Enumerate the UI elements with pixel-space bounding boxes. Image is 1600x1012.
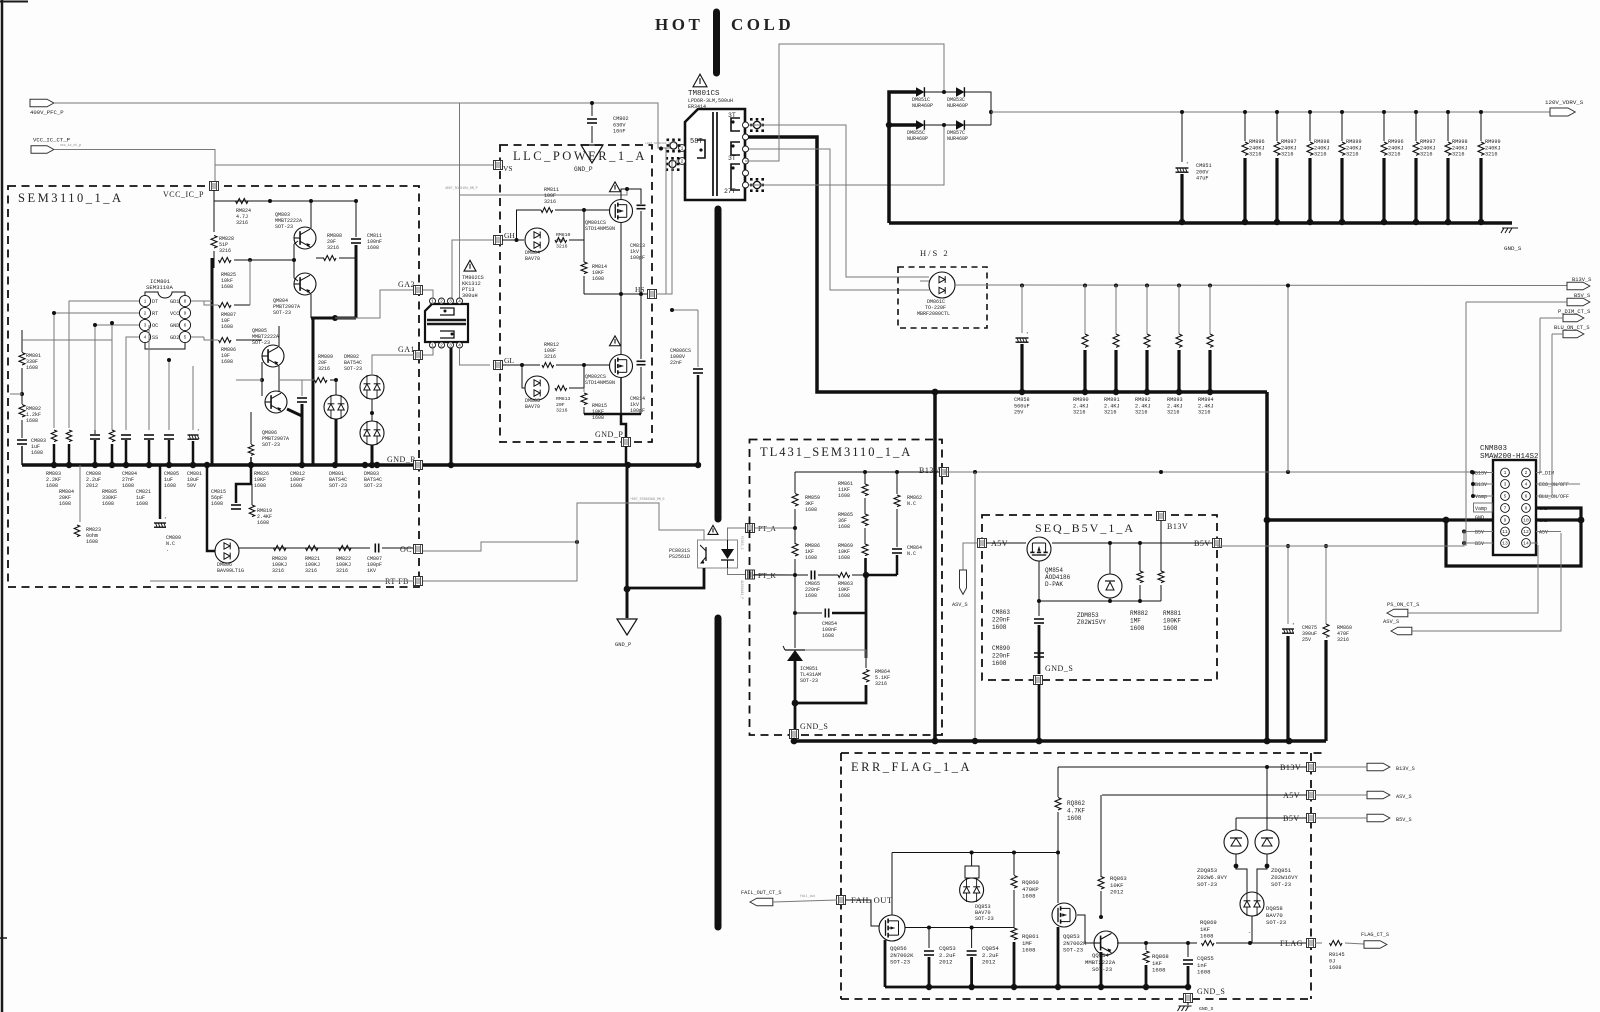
block LLC_POWER_1_A dashed box	[500, 145, 652, 442]
svg-text:10KF: 10KF	[254, 477, 266, 483]
svg-text:DM805: DM805	[525, 398, 540, 404]
svg-text:CM815: CM815	[211, 489, 226, 495]
wire thick down	[865, 575, 868, 658]
transformer TM801CS left pin 2	[679, 158, 686, 165]
resistor RM869	[864, 528, 866, 544]
svg-text:1KV: 1KV	[367, 568, 376, 574]
svg-text:3216: 3216	[544, 199, 556, 205]
svg-text:RM821: RM821	[305, 556, 320, 562]
wire stub to border	[10, 393, 22, 395]
wire QM801 drain	[621, 189, 641, 204]
svg-text:2.2KF: 2.2KF	[46, 477, 61, 483]
wire QM854 to B5V	[1052, 542, 1213, 544]
wire ZDQ851 top to B13V	[1266, 767, 1268, 830]
resistor RM825 row	[219, 258, 232, 263]
svg-text:A5V: A5V	[1539, 530, 1548, 536]
svg-text:100pF: 100pF	[367, 562, 382, 568]
wire HS to transformer	[656, 161, 678, 294]
svg-text:VCC_IC_P: VCC_IC_P	[163, 190, 204, 199]
svg-text:330F: 330F	[26, 359, 38, 365]
svg-text:RM869: RM869	[838, 543, 853, 549]
wire thick GND loop right	[1446, 508, 1581, 566]
resistor RM815	[583, 388, 585, 392]
svg-text:3: 3	[449, 343, 452, 349]
svg-text:2.4KF: 2.4KF	[257, 514, 272, 520]
resistor RM999 240KJ	[1479, 110, 1483, 114]
svg-text:56pF: 56pF	[211, 495, 223, 501]
capacitor CM815	[236, 465, 251, 503]
connector CNM803 pin 10	[1522, 516, 1531, 525]
svg-text:GND_P: GND_P	[595, 430, 623, 439]
svg-text:B13V: B13V	[1475, 471, 1487, 477]
wire ZDQ853 top to B5V	[1235, 818, 1237, 830]
border tick	[0, 937, 7, 939]
svg-text:120V_VDRV_S: 120V_VDRV_S	[1545, 99, 1584, 106]
svg-text:25V: 25V	[1302, 637, 1311, 643]
svg-text:SS: SS	[152, 335, 158, 341]
wire RM826 drop	[250, 412, 252, 444]
svg-text:1608: 1608	[1200, 933, 1213, 940]
node opto gnd junction	[624, 586, 631, 593]
svg-text:CM807: CM807	[367, 556, 382, 562]
svg-text:RM824: RM824	[236, 208, 251, 214]
resistor RQ861	[1011, 928, 1017, 940]
wire thick secondary ground bus	[889, 221, 1512, 225]
svg-text:DM855C: DM855C	[907, 130, 925, 136]
capacitor CM807	[374, 544, 376, 553]
wire DM801 drop thick	[335, 419, 338, 465]
svg-text:GD2: GD2	[170, 335, 179, 341]
svg-text:COLD: COLD	[731, 15, 794, 34]
svg-text:3216: 3216	[1485, 152, 1497, 158]
svg-text:BAT54C: BAT54C	[344, 360, 362, 366]
resistor RQ868	[1145, 943, 1147, 950]
svg-text:CM865: CM865	[805, 581, 820, 587]
connector CNM803 pin 2	[1522, 468, 1531, 477]
svg-text:GND_S: GND_S	[1197, 987, 1225, 996]
svg-text:1608: 1608	[1022, 947, 1035, 954]
wire PT_K right	[755, 574, 795, 577]
wire QQ856 source thick	[884, 940, 887, 987]
svg-text:DM853C: DM853C	[947, 97, 965, 103]
wire pin14 drop	[1530, 542, 1538, 544]
svg-text:RM860: RM860	[1337, 625, 1352, 631]
capacitor CQ854	[971, 928, 973, 949]
svg-text:RM812: RM812	[544, 342, 559, 348]
resistor RM865	[864, 498, 866, 514]
capacitor CM801 polarized	[188, 434, 199, 436]
svg-text:CM801: CM801	[187, 471, 202, 477]
svg-text:.: .	[166, 547, 169, 553]
wire P_DIM_CT_S	[1540, 317, 1563, 319]
svg-text:MBRF2080CTL: MBRF2080CTL	[917, 311, 950, 317]
svg-text:1608: 1608	[1197, 969, 1210, 976]
svg-text:10uF: 10uF	[187, 477, 199, 483]
connector CNM803 pin 11	[1501, 527, 1510, 536]
svg-text:RM999: RM999	[1485, 139, 1501, 145]
wire B13V rail inside	[795, 471, 940, 473]
diode DM853C	[956, 87, 964, 97]
svg-text:3216: 3216	[305, 568, 317, 574]
wire pin RT	[54, 313, 139, 428]
svg-text:ECO_ON/OFF: ECO_ON/OFF	[1539, 482, 1569, 488]
svg-text:RM894: RM894	[1198, 397, 1214, 403]
svg-text:DM806: DM806	[217, 562, 232, 568]
svg-text:10F: 10F	[221, 353, 230, 359]
resistor RQ862	[1057, 767, 1059, 797]
svg-text:240KJ: 240KJ	[1346, 145, 1362, 151]
capacitor CM811	[355, 201, 357, 237]
wire VS feed	[215, 164, 494, 166]
ground GND_S top right	[1502, 227, 1518, 229]
svg-text:2012: 2012	[86, 483, 98, 489]
svg-text:TM801CS: TM801CS	[688, 90, 720, 98]
svg-text:DT: DT	[152, 299, 158, 305]
svg-text:1608: 1608	[164, 483, 176, 489]
svg-text:1608: 1608	[1152, 967, 1165, 974]
wire QQ856 drain riser	[891, 853, 893, 916]
wire thick GND_P drop	[626, 465, 629, 618]
svg-text:SOT-23: SOT-23	[890, 959, 910, 966]
wire thick ERR gnd bus	[885, 986, 1188, 989]
svg-text:CM806CS: CM806CS	[670, 348, 691, 354]
diode DM803 circle	[360, 421, 384, 445]
svg-text:6: 6	[1525, 494, 1528, 500]
svg-text:1608: 1608	[257, 520, 269, 526]
svg-text:3216: 3216	[1337, 637, 1349, 643]
svg-text:3216: 3216	[272, 568, 284, 574]
svg-text:SOT-23: SOT-23	[1063, 947, 1083, 954]
svg-text:8: 8	[184, 299, 187, 305]
svg-text:N.C: N.C	[907, 501, 916, 507]
svg-text:STD14NM50N: STD14NM50N	[585, 380, 615, 386]
resistor RM998 240KJ	[1446, 110, 1450, 114]
isolation barrier bar top segment	[713, 12, 720, 73]
resistor RM828	[213, 201, 215, 232]
svg-text:RM815: RM815	[592, 403, 607, 409]
wire VCC_IC_CT_P to VCC_IC_P port	[54, 150, 215, 183]
svg-text:SOT-23: SOT-23	[1197, 881, 1217, 888]
svg-text:3216: 3216	[1198, 410, 1210, 416]
svg-text:20F: 20F	[556, 402, 565, 408]
svg-text:DM851C: DM851C	[912, 97, 930, 103]
wire TL431 cathode thick down	[794, 661, 797, 734]
svg-text:100KF: 100KF	[1163, 617, 1181, 624]
svg-text:100KJ: 100KJ	[336, 562, 351, 568]
svg-text:ERR_FLAG_1_A: ERR_FLAG_1_A	[851, 760, 972, 774]
transistor QM804	[294, 273, 316, 295]
svg-text:9: 9	[184, 311, 187, 317]
wire FB to opto collector	[423, 503, 690, 581]
svg-text:3216: 3216	[544, 354, 556, 360]
wire transformer primary HS	[652, 161, 672, 294]
svg-text:RM863: RM863	[838, 581, 853, 587]
svg-text:DM857C: DM857C	[947, 130, 965, 136]
border top stub	[0, 1, 28, 3]
svg-text:GND_S: GND_S	[800, 722, 828, 731]
svg-text:1608: 1608	[136, 501, 148, 507]
svg-text:VS: VS	[503, 164, 513, 173]
ic ICM801 pin 1 DT	[139, 295, 150, 306]
svg-text:VCC: VCC	[170, 311, 179, 317]
svg-text:RM864: RM864	[875, 669, 890, 675]
svg-text:CM854: CM854	[822, 621, 837, 627]
diode DM861C	[929, 272, 955, 298]
wire GL row	[502, 364, 540, 366]
wire sense 975	[974, 472, 976, 741]
svg-text:Z02W15VY: Z02W15VY	[1077, 619, 1106, 626]
svg-text:1uF: 1uF	[164, 477, 173, 483]
wire QM806 emitter thick	[287, 409, 302, 416]
svg-text:2.4KJ: 2.4KJ	[1198, 403, 1214, 409]
svg-text:470F: 470F	[1337, 631, 1349, 637]
resistor RM893 2.4KJ	[1177, 284, 1181, 288]
wire B13V into box	[1160, 520, 1162, 570]
svg-text:200V: 200V	[1196, 169, 1209, 175]
optocoupler LED	[721, 549, 734, 559]
wire CM812 thick drop	[301, 404, 304, 465]
transformer TM801CS secondary winding mid	[731, 142, 740, 155]
svg-text:1608: 1608	[221, 359, 233, 365]
svg-text:20P: 20P	[556, 238, 565, 244]
transformer TM802CS bottom winding	[440, 331, 454, 338]
svg-text:RM865: RM865	[838, 512, 853, 518]
wire to GND_P port thick	[621, 414, 626, 438]
wire HS row	[584, 293, 648, 295]
svg-text:1608: 1608	[46, 483, 58, 489]
svg-text:9: 9	[1504, 518, 1507, 524]
wire B5V pins link	[1464, 531, 1493, 533]
capacitor CQ853	[928, 928, 930, 949]
transformer TM802CS core	[427, 319, 466, 322]
svg-text:vcc_ic_ct_p: vcc_ic_ct_p	[60, 143, 81, 147]
resistor RM810	[555, 238, 567, 243]
svg-text:3: 3	[449, 299, 452, 305]
svg-text:51P: 51P	[219, 242, 228, 248]
svg-text:CM812: CM812	[290, 471, 305, 477]
wire pin12 A5V drop	[1536, 531, 1561, 533]
ground GND_S hatch bottom	[1187, 1002, 1189, 1005]
svg-text:2012: 2012	[939, 959, 952, 966]
svg-text:1MF: 1MF	[1130, 617, 1141, 624]
svg-text:12: 12	[1523, 529, 1529, 535]
svg-text:RM825: RM825	[221, 272, 236, 278]
svg-text:SOT-23: SOT-23	[344, 366, 362, 372]
connector CNM803 pin 3	[1501, 480, 1510, 489]
resistor RM891 2.4KJ	[1114, 284, 1118, 288]
wire opto collector	[690, 530, 704, 540]
svg-text:2.4KJ: 2.4KJ	[1073, 403, 1089, 409]
resistor RM809 row	[315, 378, 328, 383]
isolation barrier bar bottom segment	[715, 618, 722, 927]
wire thick branch 935	[933, 392, 937, 741]
svg-text:11: 11	[1502, 529, 1508, 535]
svg-text:3216: 3216	[1346, 152, 1358, 158]
svg-text:2.2uF: 2.2uF	[86, 477, 101, 483]
node B13V taps	[1159, 470, 1163, 474]
capacitor CM865	[810, 571, 812, 580]
svg-text:3216: 3216	[318, 366, 330, 372]
diode DM801 circle	[335, 380, 337, 395]
wire RM801-RM802	[21, 368, 23, 404]
wire B5V rail mid	[1217, 545, 1462, 547]
resistor RM805	[109, 430, 115, 442]
svg-text:100F: 100F	[544, 348, 556, 354]
svg-text:400V_PFC_P: 400V_PFC_P	[30, 109, 64, 116]
resistor RM892 2.4KJ	[1145, 284, 1149, 288]
diode DM851C	[916, 87, 924, 97]
resistor RM813	[555, 386, 567, 391]
svg-text:RM822: RM822	[336, 556, 351, 562]
wire RM828 down	[213, 251, 215, 268]
svg-text:240KJ: 240KJ	[1314, 145, 1330, 151]
svg-text:1uF: 1uF	[31, 444, 40, 450]
svg-text:5.1KF: 5.1KF	[875, 675, 890, 681]
svg-text:3216: 3216	[327, 245, 339, 251]
resistor RM863	[838, 573, 850, 578]
svg-text:2: 2	[440, 343, 443, 349]
svg-text:PC803_2: PC803_2	[740, 536, 744, 549]
wire PS_ON_CT_S	[1408, 545, 1538, 613]
svg-text:10nF: 10nF	[613, 129, 625, 135]
svg-text:20F: 20F	[318, 360, 327, 366]
svg-text:2.4KJ: 2.4KJ	[1135, 403, 1151, 409]
svg-text:4: 4	[1525, 482, 1528, 488]
svg-text:10KF: 10KF	[838, 549, 850, 555]
wire GND_S to bus	[1038, 684, 1041, 741]
wire FAIL OUT to gate	[845, 900, 879, 926]
svg-text:58T: 58T	[690, 138, 703, 146]
svg-text:SOT-23: SOT-23	[1266, 919, 1286, 926]
transformer TM801CS core lines	[712, 112, 714, 196]
svg-text:B13V: B13V	[1475, 482, 1487, 488]
svg-text:RM807: RM807	[221, 312, 236, 318]
wire B5V riser	[1465, 302, 1467, 546]
resistor RQ863	[1100, 795, 1102, 877]
resistor RM996 240KJ	[1382, 110, 1386, 114]
svg-text:1608: 1608	[838, 493, 850, 499]
svg-text:DQ858: DQ858	[1266, 905, 1283, 912]
svg-text:5: 5	[1504, 494, 1507, 500]
wire thick down to bus	[312, 318, 315, 465]
optocoupler PC8031S body	[698, 540, 738, 568]
resistor RM804	[66, 430, 72, 442]
resistor RM822	[339, 546, 352, 551]
svg-text:RM891: RM891	[1104, 397, 1120, 403]
svg-text:3216: 3216	[219, 248, 231, 254]
svg-text:B5V: B5V	[1475, 541, 1484, 547]
capacitor CM814	[640, 294, 642, 359]
diode DM855C	[916, 120, 924, 130]
svg-text:3216: 3216	[1281, 152, 1293, 158]
svg-text:RM859: RM859	[805, 495, 820, 501]
wire FB row	[150, 580, 414, 582]
svg-text:N.C: N.C	[166, 541, 175, 547]
svg-text:2012: 2012	[1110, 889, 1123, 896]
svg-text:22nF: 22nF	[670, 360, 682, 366]
svg-text:DM801: DM801	[329, 471, 344, 477]
block ERR_FLAG_1_A dashed box	[841, 752, 1326, 754]
wire DM855C to DM857C	[925, 124, 956, 126]
svg-text:B13V: B13V	[919, 466, 940, 475]
svg-text:3T: 3T	[728, 112, 736, 119]
svg-text:R9145: R9145	[1329, 952, 1345, 958]
block TL431_SEM3110_1_A dashed box	[750, 440, 943, 736]
svg-text:100nF: 100nF	[290, 477, 305, 483]
svg-text:220nF: 220nF	[992, 652, 1010, 659]
capacitor CM863	[1038, 612, 1040, 616]
svg-text:CM803: CM803	[31, 438, 46, 444]
wire PT_A down RM886 node	[794, 575, 796, 613]
wire into DM861C	[920, 280, 929, 282]
connector CNM803 pin 14	[1522, 539, 1531, 548]
node GND_S bus junctions	[791, 738, 798, 745]
capacitor CM802	[591, 103, 593, 116]
svg-text:6: 6	[184, 323, 187, 329]
ic ICM801 pin 4 SS	[139, 331, 150, 342]
connector CNM803 pin 5	[1501, 492, 1510, 501]
svg-text:1608: 1608	[26, 365, 38, 371]
wire drain rail gray	[460, 189, 628, 195]
svg-text:B5V_S: B5V_S	[1396, 817, 1412, 823]
resistor RM896 240KJ	[1243, 110, 1247, 114]
svg-text:TL431_SEM3110_1_A: TL431_SEM3110_1_A	[760, 445, 912, 459]
svg-text:NUR460P: NUR460P	[912, 103, 933, 109]
svg-text:H/S 2: H/S 2	[920, 248, 950, 258]
wire QM805 collector	[278, 326, 280, 346]
node bus corner	[1264, 517, 1271, 524]
diode DQ853 pins box	[965, 866, 979, 878]
svg-text:B13V_S: B13V_S	[1396, 766, 1415, 772]
svg-text:QM854: QM854	[1045, 567, 1063, 574]
svg-text:Z02W16VY: Z02W16VY	[1271, 874, 1298, 881]
wire DM851C to DM853C	[925, 91, 956, 93]
svg-text:47uF: 47uF	[1196, 176, 1208, 182]
svg-text:20F: 20F	[327, 239, 336, 245]
capacitor CM821	[144, 434, 154, 436]
svg-text:RM893: RM893	[1167, 397, 1183, 403]
svg-text:CM821: CM821	[136, 489, 151, 495]
wire pin OC	[95, 325, 139, 430]
svg-text:RM814: RM814	[592, 264, 607, 270]
mosfet QM801CS warning	[610, 182, 621, 192]
wire OC to riser	[423, 542, 577, 551]
port GL	[494, 361, 503, 370]
wire thick GND_S bus	[794, 739, 1326, 743]
svg-text:CM811: CM811	[367, 233, 382, 239]
wire opto emitter thick gnd	[627, 568, 704, 588]
block SEQ_B5V_1_A dashed box	[982, 515, 1217, 680]
svg-text:100pF: 100pF	[630, 255, 645, 261]
svg-text:1608: 1608	[1163, 625, 1178, 632]
mosfet QM802CS	[610, 355, 633, 378]
svg-text:SEM3110_1_A: SEM3110_1_A	[18, 191, 124, 205]
svg-text:1kV: 1kV	[630, 249, 639, 255]
wire fail rail	[905, 927, 1014, 929]
capacitor CM812	[301, 380, 303, 396]
resistor RM882	[1139, 543, 1141, 571]
wire BLU_ON_CT_S	[1552, 333, 1563, 335]
transformer TM801CS body	[685, 109, 745, 200]
wire FLAG to port	[1216, 942, 1307, 944]
svg-text:AOD4186: AOD4186	[1045, 574, 1071, 581]
svg-text:3216: 3216	[236, 220, 248, 226]
transistor QM806	[265, 391, 287, 413]
svg-text:HS: HS	[635, 285, 645, 294]
ic ICM851 TL431	[794, 613, 796, 648]
wire 120V_VDRV_S rail	[991, 111, 1553, 113]
isolation barrier bar middle segment	[715, 209, 722, 519]
